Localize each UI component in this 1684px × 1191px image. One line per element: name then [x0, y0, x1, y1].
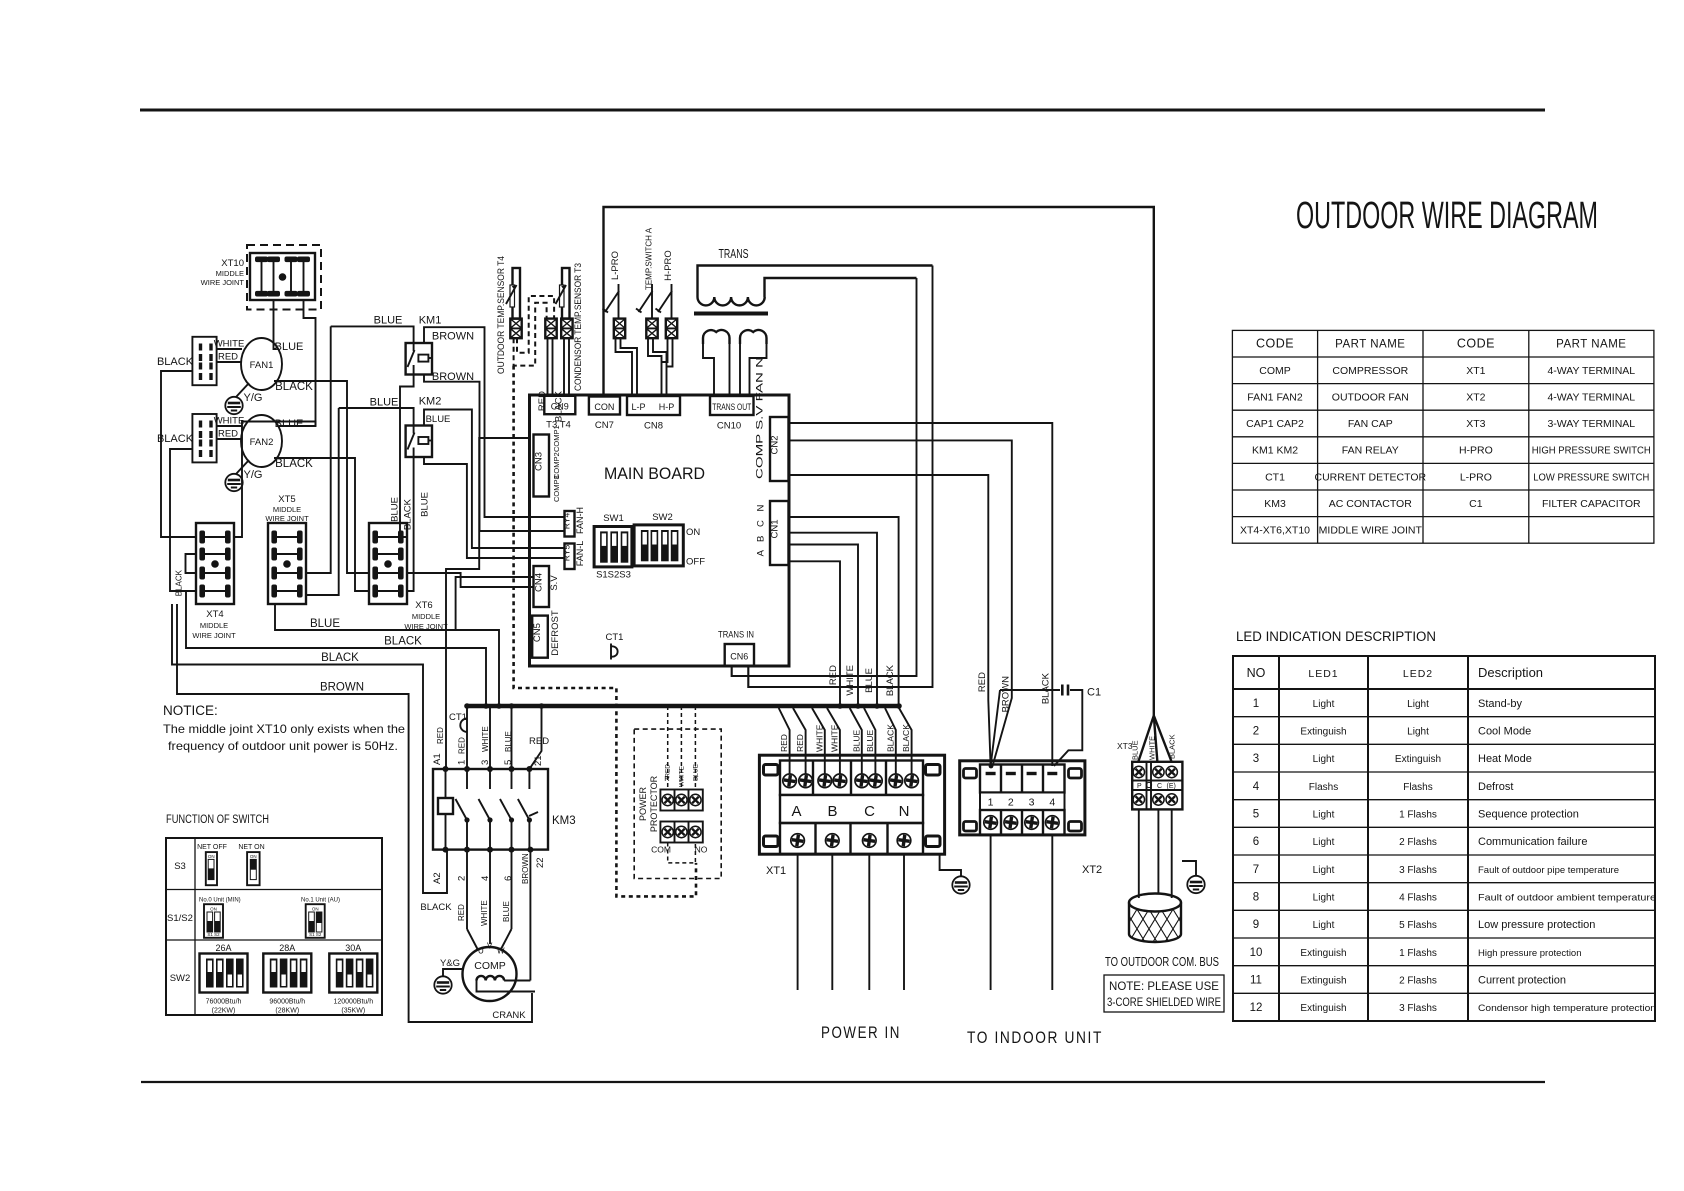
svg-text:BLACK: BLACK [554, 390, 565, 422]
svg-text:Current protection: Current protection [1478, 975, 1566, 987]
DIP switch SW1 [594, 513, 632, 581]
svg-text:Light: Light [1313, 920, 1335, 931]
svg-text:HIGH PRESSURE SWITCH: HIGH PRESSURE SWITCH [1532, 445, 1651, 457]
svg-text:8: 8 [1253, 892, 1259, 904]
svg-text:RED: RED [436, 727, 445, 744]
relay KM1 [406, 315, 442, 375]
wire XT4 to FAN blue riser [234, 422, 316, 538]
svg-text:CN1: CN1 [770, 519, 781, 538]
temperature switch A [636, 227, 654, 319]
wire blue into KM2 [339, 397, 414, 426]
svg-text:FAN RELAY: FAN RELAY [1342, 445, 1399, 457]
svg-text:BLACK: BLACK [157, 433, 194, 445]
dashed wire R S T from bus [668, 706, 696, 790]
svg-text:XT10: XT10 [221, 258, 244, 269]
svg-text:BLACK: BLACK [1168, 734, 1177, 759]
svg-text:76000Btu/h: 76000Btu/h [206, 999, 242, 1006]
wire FAN1 black left [157, 356, 196, 537]
svg-text:Light: Light [1313, 810, 1335, 821]
wire XT2 to indoor unit [991, 835, 1053, 990]
svg-text:frequency of outdoor unit pow: frequency of outdoor unit power is 50Hz. [168, 739, 398, 753]
svg-text:3-CORE SHIELDED WIRE: 3-CORE SHIELDED WIRE [1107, 997, 1221, 1009]
label RED WHITE BLUE protector [665, 763, 700, 787]
svg-text:2 Flashs: 2 Flashs [1399, 837, 1437, 848]
svg-text:BROWN: BROWN [1001, 676, 1012, 713]
svg-text:Light: Light [1313, 893, 1335, 904]
svg-text:DEFROST: DEFROST [550, 610, 561, 656]
svg-text:BLACK: BLACK [321, 652, 359, 664]
compressor COMP [463, 942, 536, 1002]
transformer TRANS [694, 247, 933, 344]
joint of H-PRO [666, 319, 677, 339]
wire CN1 A to bus [789, 517, 899, 706]
ground of FAN1 [225, 383, 262, 414]
svg-text:XT1: XT1 [1466, 365, 1485, 377]
svg-text:CAP1 CAP2: CAP1 CAP2 [1246, 418, 1304, 430]
svg-text:1: 1 [457, 760, 468, 765]
svg-text:4: 4 [1049, 797, 1055, 809]
svg-text:NOTE: PLEASE USE: NOTE: PLEASE USE [1109, 981, 1219, 993]
svg-text:4-WAY TERMINAL: 4-WAY TERMINAL [1547, 392, 1635, 404]
wire XT3 to shielded cable [1139, 809, 1172, 898]
svg-text:NOTICE:: NOTICE: [163, 703, 218, 718]
svg-text:2: 2 [1008, 797, 1014, 809]
svg-text:FUNCTION OF SWITCH: FUNCTION OF SWITCH [166, 814, 269, 826]
wire CN1 C to bus [789, 545, 859, 707]
contactor KM3 pole 3 [479, 769, 493, 850]
pressure switch L-PRO [603, 251, 622, 319]
svg-text:Extinguish: Extinguish [1300, 948, 1346, 959]
svg-text:6: 6 [1253, 836, 1259, 848]
svg-text:26A: 26A [215, 943, 231, 953]
svg-text:FAN1: FAN1 [250, 360, 274, 371]
wire 1 from bus [466, 706, 468, 769]
plug of FAN2 [192, 414, 216, 462]
wire FAN1 red [217, 352, 242, 363]
svg-text:1: 1 [1253, 698, 1259, 710]
svg-text:C: C [1157, 783, 1162, 790]
plug of FAN1 [192, 337, 216, 385]
fan motor FAN2 [241, 415, 282, 467]
node power bus [467, 704, 900, 709]
svg-text:BLUE: BLUE [426, 414, 451, 425]
wire KM2 contact black to XT6 [407, 457, 414, 591]
main board U1 [530, 395, 790, 666]
parts code table [1232, 330, 1654, 543]
svg-text:MIDDLE WIRE JOINT: MIDDLE WIRE JOINT [1319, 525, 1423, 537]
current detector CT1 on board [606, 632, 624, 660]
svg-text:LED1: LED1 [1308, 668, 1338, 680]
svg-text:FAN-H: FAN-H [575, 507, 585, 534]
svg-text:WIRE JOINT: WIRE JOINT [201, 278, 245, 287]
svg-text:BLACK: BLACK [420, 902, 452, 913]
svg-text:XT2: XT2 [1466, 392, 1485, 404]
svg-text:96000Btu/h: 96000Btu/h [269, 999, 305, 1006]
svg-text:Stand-by: Stand-by [1478, 698, 1523, 710]
svg-text:V: V [487, 942, 493, 951]
svg-text:Fault of outdoor ambient tempe: Fault of outdoor ambient temperature [1478, 893, 1656, 904]
svg-text:CT1: CT1 [449, 712, 467, 723]
svg-text:BROWN: BROWN [521, 853, 530, 884]
svg-text:Extinguish: Extinguish [1300, 727, 1346, 738]
svg-text:BLUE: BLUE [275, 341, 304, 353]
svg-text:ON: ON [312, 907, 319, 912]
connector CN6 (TRANS IN) [718, 630, 754, 667]
wire KM1 contact to XT6 [400, 375, 414, 538]
svg-text:BLUE: BLUE [390, 497, 401, 522]
svg-text:5 Flashs: 5 Flashs [1399, 920, 1437, 931]
svg-text:ON: ON [686, 527, 700, 538]
wire bus to XT1 fanout [779, 708, 912, 774]
switch S3 NET OFF icon [197, 844, 227, 885]
connector CN4 [534, 566, 561, 607]
svg-text:Extinguish: Extinguish [1395, 754, 1441, 765]
svg-text:L-P: L-P [631, 402, 645, 412]
svg-text:COMP: COMP [1259, 365, 1291, 377]
svg-text:MAIN BOARD: MAIN BOARD [604, 464, 705, 483]
svg-text:Light: Light [1313, 837, 1335, 848]
svg-text:RED: RED [529, 736, 549, 747]
wire XT10 right to FAN2 blue [279, 300, 316, 426]
wire CN6 to trans risers [732, 666, 933, 687]
notice text [163, 703, 405, 753]
svg-text:FAN-L: FAN-L [575, 541, 585, 567]
wire CN9 black [554, 338, 570, 422]
svg-text:BLUE: BLUE [1131, 740, 1140, 760]
connector CN2 [755, 357, 789, 481]
svg-text:3 Flashs: 3 Flashs [1399, 1003, 1437, 1014]
wire blue long [275, 604, 499, 706]
switch SW2 30A icon [329, 943, 377, 1015]
dashed wire T4 loop inner [517, 296, 554, 353]
svg-text:Light: Light [1313, 865, 1335, 876]
svg-text:LED INDICATION DESCRIPTION: LED INDICATION DESCRIPTION [1236, 629, 1436, 644]
svg-text:SW2: SW2 [652, 512, 673, 523]
ground near XT1 [940, 855, 970, 894]
svg-text:1 Flashs: 1 Flashs [1399, 948, 1437, 959]
svg-text:Light: Light [1407, 727, 1429, 738]
svg-text:POWER: POWER [638, 787, 648, 822]
svg-text:CRANK: CRANK [492, 1010, 526, 1021]
wire XT1 to power in [798, 854, 904, 990]
svg-text:A: A [791, 803, 801, 820]
wire CN2 to XT2 red [789, 475, 989, 690]
note box [1104, 975, 1224, 1012]
relay output RY4 [562, 507, 586, 537]
svg-text:BLACK: BLACK [175, 569, 184, 596]
svg-text:Extinguish: Extinguish [1300, 1003, 1346, 1014]
svg-text:TRANS IN: TRANS IN [718, 630, 754, 641]
svg-text:RED: RED [458, 737, 467, 754]
svg-text:CN4: CN4 [534, 573, 545, 592]
svg-text:Flashs: Flashs [1403, 782, 1432, 793]
middle wire joint XT5 [265, 494, 309, 523]
svg-text:RED: RED [457, 904, 466, 921]
shielded cable to outdoor com bus [1117, 894, 1199, 943]
pressure switch H-PRO [656, 250, 675, 319]
svg-text:RED: RED [977, 672, 988, 692]
svg-text:Defrost: Defrost [1478, 781, 1513, 793]
svg-text:RED: RED [537, 391, 548, 411]
ground of COMP [434, 958, 462, 994]
svg-text:2 Flashs: 2 Flashs [1399, 976, 1437, 987]
svg-text:S3: S3 [174, 861, 186, 872]
svg-text:WHITE: WHITE [214, 416, 245, 427]
svg-text:CN10: CN10 [717, 421, 741, 432]
function of switch table [166, 814, 382, 1015]
svg-text:S1S2S3: S1S2S3 [596, 570, 631, 581]
page bottom border [141, 1081, 1545, 1083]
svg-text:(35KW): (35KW) [341, 1008, 365, 1015]
svg-text:XT6: XT6 [415, 600, 432, 611]
svg-text:CN2: CN2 [770, 435, 781, 454]
svg-text:OFF: OFF [686, 557, 705, 568]
svg-text:LOW PRESSURE SWITCH: LOW PRESSURE SWITCH [1533, 471, 1649, 483]
svg-text:1: 1 [988, 797, 994, 809]
svg-text:30A: 30A [345, 943, 361, 953]
svg-text:TRANS: TRANS [719, 247, 749, 261]
wire FAN2 red [217, 429, 242, 440]
switch SW2 26A icon [200, 943, 248, 1015]
svg-text:C1: C1 [1087, 687, 1101, 699]
connector CN5 [532, 610, 561, 658]
DIP switch SW2 [634, 512, 705, 568]
wire 3 from bus [489, 706, 491, 769]
svg-text:CON: CON [594, 402, 614, 412]
svg-text:TEMP.SWITCH A: TEMP.SWITCH A [645, 227, 654, 290]
svg-text:5: 5 [1253, 809, 1259, 821]
svg-text:PART NAME: PART NAME [1556, 339, 1626, 351]
svg-text:Sequence protection: Sequence protection [1478, 809, 1579, 821]
svg-text:TO OUTDOOR COM. BUS: TO OUTDOOR COM. BUS [1105, 955, 1219, 969]
svg-text:RED: RED [218, 429, 238, 440]
svg-text:Flashs: Flashs [1309, 782, 1338, 793]
wire trans primary to CN6 [732, 266, 933, 688]
relay output RY5 [562, 541, 586, 569]
joint of sensor T4 [510, 319, 521, 339]
terminal block XT1 [759, 755, 944, 877]
svg-text:H-PRO: H-PRO [663, 250, 674, 281]
svg-text:CN6: CN6 [730, 652, 748, 662]
svg-text:4-WAY TERMINAL: 4-WAY TERMINAL [1547, 365, 1635, 377]
svg-text:Heat Mode: Heat Mode [1478, 753, 1532, 765]
svg-text:CONDENSOR TEMP.SENSOR T3: CONDENSOR TEMP.SENSOR T3 [573, 263, 584, 391]
svg-text:BLUE: BLUE [420, 492, 431, 517]
wire CN3 to KM3 A1 [446, 438, 530, 769]
wire CN1 N to bus [789, 561, 841, 706]
svg-text:XT1: XT1 [766, 865, 786, 877]
svg-text:W: W [497, 947, 505, 956]
svg-text:XT4-XT6,XT10: XT4-XT6,XT10 [1240, 525, 1310, 537]
svg-text:MIDDLE: MIDDLE [216, 269, 244, 278]
connector CN8 (L-P H-P) [627, 396, 680, 432]
svg-text:BROWN: BROWN [432, 371, 474, 383]
svg-text:COMP: COMP [474, 960, 506, 972]
svg-text:BROWN: BROWN [432, 331, 474, 343]
svg-text:BLUE: BLUE [370, 397, 399, 409]
svg-text:FAN1 FAN2: FAN1 FAN2 [1247, 392, 1303, 404]
svg-text:L-PRO: L-PRO [1460, 471, 1492, 483]
wire CN1 B to bus [789, 533, 878, 706]
svg-text:LED2: LED2 [1403, 668, 1433, 680]
svg-text:High pressure protection: High pressure protection [1478, 948, 1582, 959]
wire KM1 coil brown bottom [424, 371, 565, 531]
fan motor FAN1 [241, 338, 282, 390]
svg-text:CN3: CN3 [534, 452, 545, 471]
svg-text:No.0 Unit (MIN): No.0 Unit (MIN) [199, 898, 241, 904]
node KM3 terminals [443, 766, 534, 853]
wire KM2 coil to RY5 top [424, 410, 565, 549]
svg-text:FAN2: FAN2 [250, 437, 274, 448]
wire CN4 upper [456, 577, 534, 630]
power protector enclosure [634, 729, 721, 878]
svg-text:BROWN: BROWN [320, 682, 364, 694]
page top border [140, 109, 1545, 112]
svg-text:MIDDLE: MIDDLE [273, 505, 301, 514]
wire black long upper [186, 591, 486, 706]
contactor KM3 pole 5 [500, 769, 514, 850]
middle wire joint XT4 [192, 609, 236, 640]
svg-text:KM3: KM3 [1264, 498, 1286, 510]
connector CN1 [756, 501, 789, 565]
svg-text:2: 2 [457, 876, 468, 881]
connector CN10 (TRANS OUT) [710, 396, 754, 432]
svg-text:CN8: CN8 [644, 421, 663, 432]
svg-text:RED: RED [779, 734, 789, 752]
wire FAN2 white [214, 416, 245, 427]
wire XT4 jumper black [175, 554, 197, 596]
svg-text:3: 3 [1029, 797, 1035, 809]
wire trans secondary leads to CN10 [703, 338, 767, 396]
svg-text:C1: C1 [1469, 498, 1483, 510]
wire C1 to XT2 terminal 1 diagonal [991, 690, 1000, 766]
switch SW2 28A icon [263, 943, 311, 1015]
joint of L-PRO [614, 319, 625, 339]
svg-text:BLACK: BLACK [901, 724, 911, 752]
svg-text:KM2: KM2 [419, 396, 442, 408]
svg-text:4 Flashs: 4 Flashs [1399, 893, 1437, 904]
svg-text:NO: NO [695, 845, 708, 855]
svg-text:Light: Light [1407, 699, 1429, 710]
svg-text:BLACK: BLACK [275, 458, 313, 470]
svg-text:No.1 Unit (AU): No.1 Unit (AU) [301, 898, 340, 904]
svg-text:COMP1: COMP1 [552, 425, 561, 452]
svg-text:PART NAME: PART NAME [1335, 339, 1405, 351]
middle wire joint XT10 [201, 245, 321, 310]
svg-text:OUTDOOR TEMP.SENSOR T4: OUTDOOR TEMP.SENSOR T4 [496, 256, 507, 374]
svg-text:4: 4 [1253, 781, 1260, 793]
svg-text:WHITE: WHITE [481, 726, 490, 752]
svg-text:WHITE: WHITE [1148, 736, 1157, 760]
svg-text:L-PRO: L-PRO [610, 251, 621, 280]
wire XT6 rail3 to CN4 [407, 573, 534, 587]
node bus junctions [464, 703, 902, 709]
wire XT3 crowfoot [1138, 716, 1172, 762]
svg-text:CN7: CN7 [595, 420, 614, 431]
temp sensor T3 [556, 263, 585, 391]
svg-text:BLUE: BLUE [851, 729, 861, 752]
svg-text:28A: 28A [279, 943, 295, 953]
svg-text:CT1: CT1 [1265, 471, 1285, 483]
svg-text:Light: Light [1313, 699, 1335, 710]
wire 22 brown down [529, 850, 531, 981]
LED indication table [1233, 629, 1656, 1021]
svg-text:PROTECTOR: PROTECTOR [649, 775, 659, 832]
svg-text:U: U [478, 947, 484, 956]
wire CN2 to XT2 brown [789, 440, 1012, 766]
contactor KM3 pole 21 [518, 769, 538, 850]
svg-text:OUTDOOR FAN: OUTDOOR FAN [1332, 392, 1409, 404]
svg-text:3: 3 [1253, 753, 1259, 765]
wire RED to XT2 terminal 1 [988, 690, 990, 766]
power protector screws [661, 793, 702, 838]
switch S1/S2 No.1 icon [301, 898, 340, 938]
middle wire joint XT6 [404, 600, 448, 631]
svg-text:BLACK: BLACK [384, 636, 422, 648]
svg-text:2: 2 [1253, 726, 1259, 738]
svg-text:TO INDOOR UNIT: TO INDOOR UNIT [967, 1028, 1103, 1047]
svg-text:BLACK: BLACK [885, 724, 895, 752]
svg-text:MIDDLE: MIDDLE [412, 612, 440, 621]
svg-text:SW1: SW1 [603, 513, 624, 524]
svg-text:7: 7 [1253, 864, 1259, 876]
svg-text:XT2: XT2 [1082, 864, 1102, 876]
wire temp switch A to CN8 H-P [648, 338, 667, 396]
wire FAN1 white [214, 339, 245, 350]
svg-text:Fault of outdoor pipe temperat: Fault of outdoor pipe temperature [1478, 865, 1619, 876]
svg-text:CURRENT DETECTOR: CURRENT DETECTOR [1314, 471, 1426, 483]
wire 6 blue to COMP [501, 850, 512, 950]
svg-text:CODE: CODE [1256, 337, 1294, 351]
dashed wire T4 loop outer [514, 303, 547, 366]
svg-text:22: 22 [535, 857, 546, 868]
svg-text:A1: A1 [432, 753, 443, 765]
wire 21 from bus [529, 706, 541, 769]
wire 2 red to COMP [457, 850, 478, 950]
joint of temperature switch A [646, 319, 657, 339]
svg-text:N: N [899, 803, 910, 820]
wire 4 white to COMP [480, 850, 490, 944]
contactor KM3 [433, 769, 576, 850]
svg-text:A2: A2 [432, 872, 443, 884]
svg-text:S1/S2: S1/S2 [167, 913, 193, 924]
svg-text:NET ON: NET ON [238, 844, 264, 851]
wire KM1 coil brown top [424, 327, 565, 517]
svg-text:Y/G: Y/G [244, 392, 263, 404]
svg-text:Condensor high temperature pro: Condensor high temperature protection [1478, 1003, 1656, 1014]
svg-text:WHITE: WHITE [480, 900, 489, 926]
svg-text:WIRE JOINT: WIRE JOINT [265, 514, 309, 523]
dashed wire COM NO jumper [668, 843, 696, 863]
svg-text:COMP3: COMP3 [552, 475, 561, 502]
svg-text:BLACK: BLACK [275, 381, 313, 393]
svg-text:Low pressure protection: Low pressure protection [1478, 919, 1595, 931]
svg-text:(E): (E) [1167, 783, 1176, 790]
node top rail [604, 207, 1154, 716]
svg-text:COMP S.V FAN N: COMP S.V FAN N [755, 357, 766, 479]
dashed wire T4 to power protector [514, 366, 696, 897]
svg-text:RED: RED [795, 734, 805, 752]
connector CN9 [544, 396, 575, 431]
svg-text:KM1 KM2: KM1 KM2 [1252, 445, 1298, 457]
svg-text:Y&G: Y&G [440, 958, 460, 969]
wire L-PRO to CN8 L-P [616, 338, 638, 396]
svg-text:120000Btu/h: 120000Btu/h [333, 999, 373, 1006]
svg-text:FAN CAP: FAN CAP [1348, 418, 1393, 430]
svg-text:H-PRO: H-PRO [1459, 445, 1493, 457]
svg-text:WHITE: WHITE [845, 665, 856, 696]
switch S1/S2 No.0 icon [199, 898, 241, 938]
